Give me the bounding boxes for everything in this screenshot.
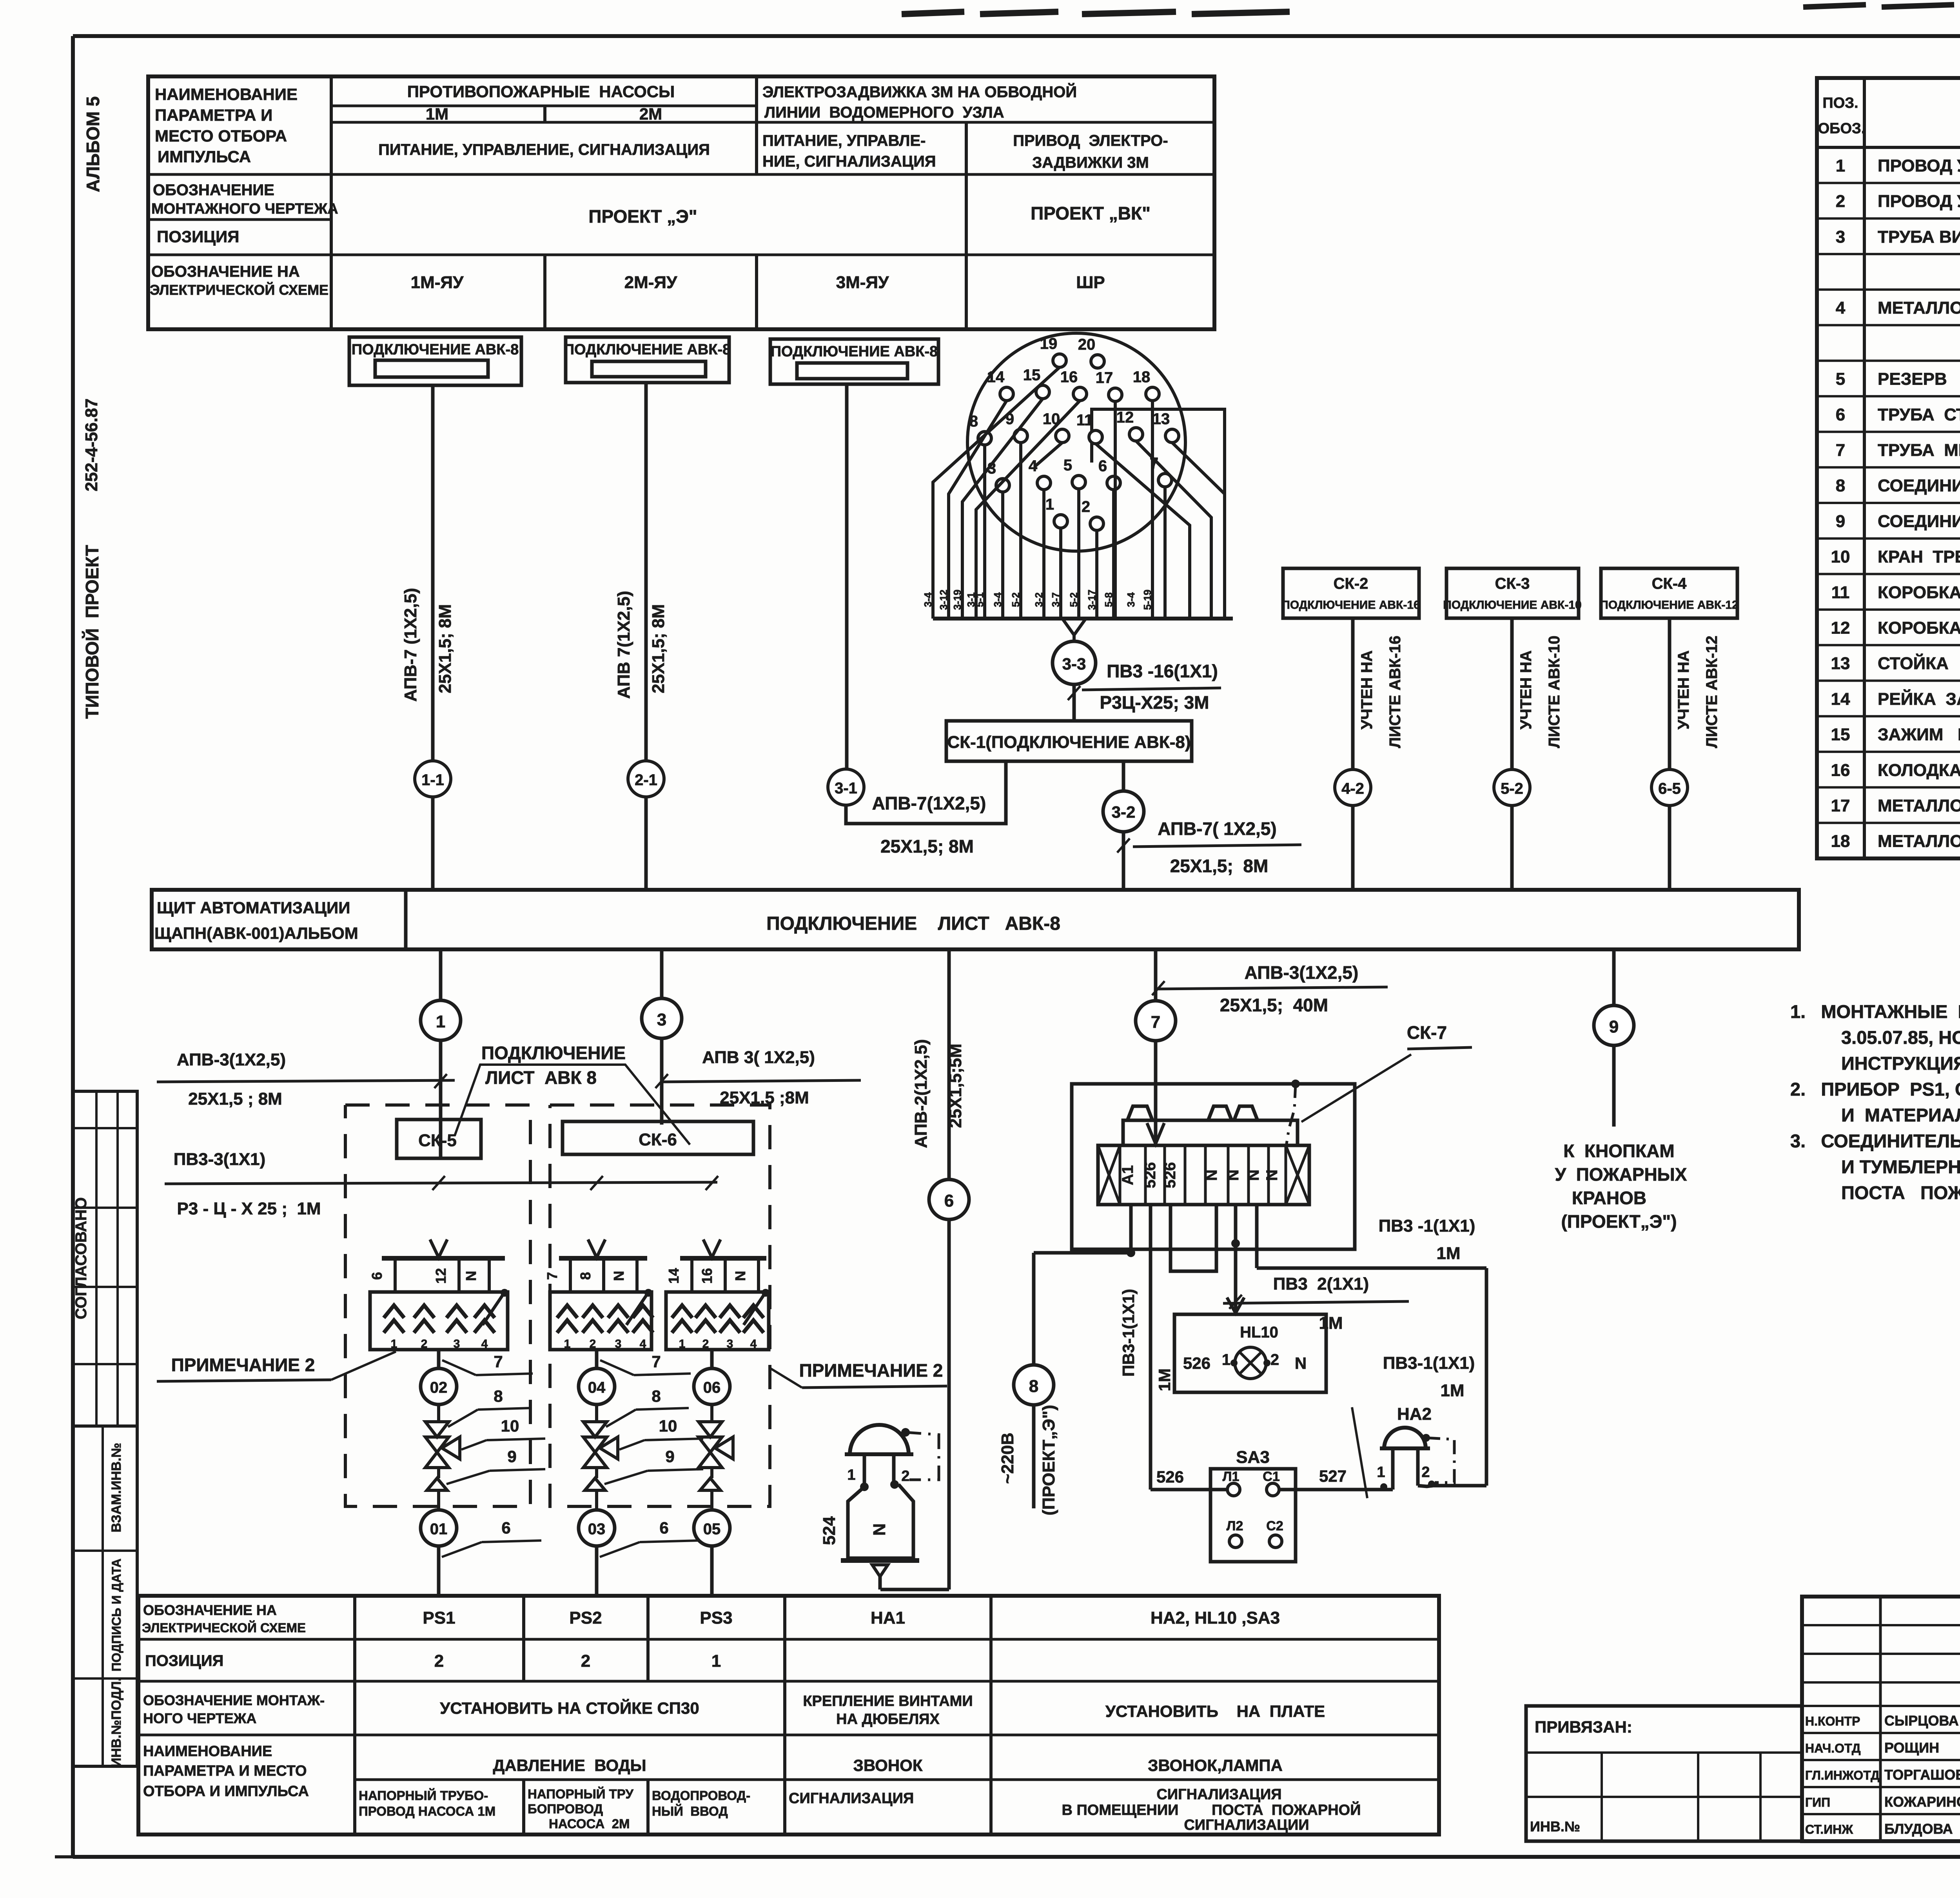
svg-text:PS3: PS3 [700,1608,732,1628]
svg-text:ПВ3-3(1Х1): ПВ3-3(1Х1) [174,1150,266,1169]
wire СК-3 to node 5-2 [1510,618,1514,890]
svg-text:КРАН ТРЕХХОДОВОЙ НАТЯЖНОЙ: КРАН ТРЕХХОДОВОЙ НАТЯЖНОЙ 11Б18БК [1878,546,1960,566]
svg-text:НИЕ, СИГНАЛИЗАЦИЯ: НИЕ, СИГНАЛИЗАЦИЯ [762,153,936,170]
svg-text:ПРИМЕЧАНИЕ 2: ПРИМЕЧАНИЕ 2 [799,1360,943,1381]
svg-text:(ПРОЕКТ„Э"): (ПРОЕКТ„Э") [1561,1211,1677,1232]
label 220V project [998,1405,1058,1515]
scan artifact dashes top [902,5,1954,14]
svg-text:1. МОНТАЖНЫЕ РАБОТЫ ДОЛЖНЫ: 1. МОНТАЖНЫЕ РАБОТЫ ДОЛЖНЫ БЫТЬ ВЫПОЛНЕН… [1790,1001,1960,1022]
svg-text:N: N [1225,1170,1242,1181]
connection box PODKLYUCHENIE AVK-8 #3 [770,339,938,384]
receiver block of PS1 [370,1289,508,1350]
svg-text:МЕТАЛЛОКОНСТРУКЦИИ ДЛЯ КРЕПЛЕ: МЕТАЛЛОКОНСТРУКЦИИ ДЛЯ КРЕПЛЕНИЯ ТРАСС [1878,832,1960,851]
svg-text:1М: 1М [426,105,448,123]
svg-text:1М: 1М [1155,1368,1174,1391]
svg-text:526: 526 [1142,1162,1159,1189]
svg-text:ТРУБА МЕДНАЯ 8Х1 ГОСТ: ТРУБА МЕДНАЯ 8Х1 ГОСТ 617-72* [1878,441,1960,460]
svg-text:3-7: 3-7 [1050,592,1062,607]
svg-text:ПИТАНИЕ, УПРАВЛЕ-: ПИТАНИЕ, УПРАВЛЕ- [762,132,926,149]
svg-text:НАЧ.ОТД: НАЧ.ОТД [1805,1741,1861,1755]
svg-text:ЗВОНОК,ЛАМПА: ЗВОНОК,ЛАМПА [1148,1756,1283,1775]
svg-text:14: 14 [1831,690,1850,709]
svg-text:АЛЬБОМ 5: АЛЬБОМ 5 [83,96,103,192]
svg-text:КОРОБКА СОЕДИНИТЕЛЬНАЯ КСК: КОРОБКА СОЕДИНИТЕЛЬНАЯ КСК-8 [1878,583,1960,602]
cable label APV-3 at node 7 [1152,962,1388,1015]
svg-text:8: 8 [494,1387,503,1405]
svg-text:СОЕДИНИТЕЛЬ СМВ-8-М20: СОЕДИНИТЕЛЬ СМВ-8-М20 [1878,476,1960,495]
svg-text:МОНТАЖНОГО ЧЕРТЕЖА: МОНТАЖНОГО ЧЕРТЕЖА [151,201,338,217]
svg-text:2: 2 [1270,1351,1279,1368]
cable label PV3 2 [1223,1274,1409,1333]
svg-text:КОЖАРИНОВА: КОЖАРИНОВА [1884,1794,1960,1810]
svg-text:ОБОЗНАЧЕНИЕ: ОБОЗНАЧЕНИЕ [153,181,274,199]
svg-text:ПРОЕКТ „ВК": ПРОЕКТ „ВК" [1031,203,1151,223]
svg-text:8: 8 [1029,1377,1038,1396]
svg-text:2. ПРИБОР PS1, СОЕДИНИТЕЛЬН: 2. ПРИБОР PS1, СОЕДИНИТЕЛЬНАЯ КОРОБКА СК… [1790,1079,1960,1100]
wire SK-1 to node 3-2 to bus [1117,761,1130,890]
svg-text:ШР: ШР [1076,273,1105,292]
svg-text:ЩИТ АВТОМАТИЗАЦИИ: ЩИТ АВТОМАТИЗАЦИИ [157,898,350,917]
svg-text:ЗАДВИЖКИ 3М: ЗАДВИЖКИ 3М [1032,154,1149,171]
svg-text:~220В: ~220В [998,1433,1017,1484]
svg-text:ПРИМЕЧАНИЕ 2: ПРИМЕЧАНИЕ 2 [171,1355,315,1375]
svg-text:2: 2 [590,1337,596,1350]
bell HA1 with body 524 [820,1425,919,1590]
svg-text:12: 12 [1116,409,1134,426]
svg-text:9: 9 [1609,1017,1619,1036]
svg-text:СИГНАЛИЗАЦИЯ: СИГНАЛИЗАЦИЯ [1156,1786,1281,1803]
svg-text:АПВ 3( 1Х2,5): АПВ 3( 1Х2,5) [702,1048,815,1067]
svg-text:19: 19 [1040,335,1058,352]
receiver block of PS3 [666,1289,769,1350]
svg-text:ОБОЗНАЧЕНИЕ НА: ОБОЗНАЧЕНИЕ НА [151,263,300,280]
margin label Album 5 [83,96,103,192]
wire bar to node 7 to SK-7 [1154,949,1158,1145]
connection box PODKLYUCHENIE AVK-8 #2 [564,337,731,383]
svg-text:25Х1,5; 8М: 25Х1,5; 8М [1170,856,1269,876]
svg-text:HL10: HL10 [1240,1324,1278,1341]
svg-text:ОТБОРА И ИМПУЛЬСА: ОТБОРА И ИМПУЛЬСА [143,1783,309,1800]
cable label PV3-1 upper [1379,1216,1475,1263]
svg-text:7: 7 [494,1352,503,1371]
svg-text:ПАРАМЕТРА И: ПАРАМЕТРА И [155,106,272,124]
jumper bracket over terminal block [1123,1106,1298,1145]
svg-text:ИНСТРУКЦИЯМИ ПО МОНТАЖУ И: ИНСТРУКЦИЯМИ ПО МОНТАЖУ И ЭКСПЛУАТАЦИИ П… [1841,1053,1960,1074]
wire 7 entry into block [1147,1084,1164,1145]
position number leaders PS2 [600,1352,703,1557]
svg-text:АПВ 7(1Х2,5): АПВ 7(1Х2,5) [614,591,633,699]
node circle 3-2 [1103,791,1144,832]
svg-text:25Х1,5 ; 8М: 25Х1,5 ; 8М [188,1089,282,1109]
svg-text:9: 9 [665,1447,674,1466]
svg-text:10: 10 [659,1417,677,1435]
svg-text:СТОЙКА СП-30: СТОЙКА СП-30 [1878,653,1960,673]
wire СК-2 to node 4-2 [1351,618,1355,890]
svg-text:03: 03 [588,1521,606,1538]
svg-text:25Х1,5; 8М: 25Х1,5; 8М [880,836,974,856]
svg-text:5: 5 [1063,457,1072,474]
valve symbols poz 8/10/9 of PS1 [425,1404,460,1510]
svg-text:3-4: 3-4 [992,592,1004,607]
svg-text:14: 14 [987,368,1005,386]
label primechanie 2 right [770,1360,947,1388]
svg-text:01: 01 [430,1521,448,1538]
text to fire cranes buttons [1555,1141,1687,1232]
svg-text:УЧТЕН НА: УЧТЕН НА [1358,650,1376,729]
svg-text:3: 3 [615,1337,622,1350]
svg-text:РЕЙКА ЗАЖИМОВ Р3-8: РЕЙКА ЗАЖИМОВ Р3-8 [1878,689,1960,709]
position number leaders PS1 [442,1352,545,1557]
svg-text:12: 12 [433,1268,449,1284]
svg-text:4-2: 4-2 [1341,780,1364,797]
label uchten na liste for СК-3 [1517,636,1563,748]
connector shell circle SHR [967,333,1185,551]
svg-text:АПВ-3(1Х2,5): АПВ-3(1Х2,5) [177,1050,286,1069]
svg-text:КОЛОДКА МАРКИРОВОЧНАЯ КМ-4: КОЛОДКА МАРКИРОВОЧНАЯ КМ-4 [1878,760,1960,780]
node circle 2-1 [628,761,664,797]
cable label APV-7 on wire 1 [401,588,455,702]
cable label APV-2 on wire 6 [911,1039,965,1148]
wire and node 04 [579,1350,615,1404]
svg-text:С1: С1 [1263,1469,1279,1484]
svg-text:7: 7 [544,1272,560,1280]
svg-text:17: 17 [1096,369,1113,386]
svg-text:ПРОТИВОПОЖАРНЫЕ НАСОСЫ: ПРОТИВОПОЖАРНЫЕ НАСОСЫ [407,82,675,101]
bottom designation table [138,1596,1439,1834]
svg-text:ПВ3 -16(1Х1): ПВ3 -16(1Х1) [1107,661,1218,681]
svg-text:3-12: 3-12 [938,590,949,610]
node circle 7 [1136,1001,1176,1041]
svg-text:14: 14 [666,1268,682,1284]
svg-text:1: 1 [564,1337,571,1350]
node circle 1-1 [415,761,451,797]
node circle 9 [1594,1005,1634,1045]
svg-text:ГЛ.ИНЖОТД: ГЛ.ИНЖОТД [1805,1768,1880,1782]
cable label APV 3 right of node 3 [655,1048,861,1107]
svg-text:N: N [1203,1170,1220,1181]
svg-text:8: 8 [652,1387,661,1405]
svg-text:НАСОСА 2М: НАСОСА 2М [549,1816,630,1831]
wire SA3 row labels 526 527 [1156,1467,1384,1490]
svg-text:4: 4 [1836,298,1846,318]
svg-text:25Х1,5; 40М: 25Х1,5; 40М [1220,995,1328,1015]
svg-text:ПРОВОД УСТАНОВОЧНЫЙ ПВ3-1-380: ПРОВОД УСТАНОВОЧНЫЙ ПВ3-1-380 ГОСТ 6323-… [1878,155,1960,175]
svg-text:ТОРГАШОВ: ТОРГАШОВ [1884,1767,1960,1783]
svg-text:ТРУБА СТАЛЬНАЯ БЕСШОВНАЯ: ТРУБА СТАЛЬНАЯ БЕСШОВНАЯ 14Х2-10000 [1878,405,1960,424]
svg-text:3. СОЕДИНИТЕЛЬНУЮ КОРОБКУ: 3. СОЕДИНИТЕЛЬНУЮ КОРОБКУ СК-6, ЗВОНОК Н… [1790,1130,1960,1151]
svg-text:1: 1 [1222,1351,1230,1368]
margin block SOGLASOVANO [73,1091,137,1426]
svg-text:ПОДКЛЮЧЕНИЕ АВК-8: ПОДКЛЮЧЕНИЕ АВК-8 [771,343,938,360]
svg-text:2: 2 [901,1468,909,1484]
svg-text:2: 2 [702,1337,709,1350]
wire bar to node 1 [439,949,443,1158]
wire and node 02 [421,1350,457,1404]
cable label PV3-3 [165,1150,718,1218]
label primechanie 2 left [157,1352,396,1381]
margin block signatures [73,1426,137,1767]
svg-text:2М-ЯУ: 2М-ЯУ [624,273,677,292]
svg-text:Н.КОНТР: Н.КОНТР [1805,1714,1860,1728]
svg-text:ПРОЕКТ „Э": ПРОЕКТ „Э" [588,206,697,227]
svg-text:18: 18 [1133,368,1151,386]
svg-text:2: 2 [1836,192,1845,211]
svg-text:РОЩИН: РОЩИН [1884,1740,1939,1756]
svg-text:КРЕПЛЕНИЕ ВИНТАМИ: КРЕПЛЕНИЕ ВИНТАМИ [803,1693,973,1709]
terminal strip of PS1 [369,1239,505,1292]
node circle 3-1 [828,769,864,805]
svg-text:АПВ-2(1Х2,5): АПВ-2(1Х2,5) [911,1039,931,1148]
valve symbols poz 8/10/9 of PS2 [583,1404,618,1510]
svg-text:СК-6: СК-6 [639,1130,677,1149]
svg-text:1: 1 [847,1467,855,1483]
svg-text:252-4-56.87: 252-4-56.87 [82,398,101,491]
svg-text:УСТАНОВИТЬ НА СТОЙКЕ СП30: УСТАНОВИТЬ НА СТОЙКЕ СП30 [440,1698,699,1717]
svg-text:N: N [1263,1170,1281,1181]
svg-text:ЗАЖИМ НАБОРНЫЙ ЗН-Н: ЗАЖИМ НАБОРНЫЙ ЗН-Н [1878,724,1960,744]
wire block right loop to HA2 [1257,1205,1486,1486]
node circle 6 [929,1179,969,1219]
svg-text:11: 11 [1076,412,1093,429]
svg-text:4: 4 [640,1337,646,1350]
svg-text:С2: С2 [1266,1519,1283,1533]
leader line PV3-1 to SA3 wire [1352,1407,1367,1498]
svg-text:МЕСТО ОТБОРА: МЕСТО ОТБОРА [155,127,287,145]
junction box СК-2 [1281,568,1420,618]
svg-text:4: 4 [481,1337,488,1350]
bell HA2 [1377,1404,1435,1490]
svg-text:2: 2 [1421,1464,1430,1481]
connector insert box [1092,409,1225,619]
svg-text:АПВ-3(1Х2,5): АПВ-3(1Х2,5) [1245,962,1359,983]
receiver block of PS2 [550,1289,653,1350]
svg-text:20: 20 [1078,336,1096,353]
svg-text:7: 7 [1151,1013,1160,1032]
svg-text:ПВ3 2(1Х1): ПВ3 2(1Х1) [1273,1274,1369,1294]
svg-text:ПВ3-1(1Х1): ПВ3-1(1Х1) [1383,1354,1475,1373]
svg-text:11: 11 [1831,583,1850,602]
svg-text:1М: 1М [1436,1244,1460,1263]
svg-text:УСТАНОВИТЬ НА ПЛАТЕ: УСТАНОВИТЬ НА ПЛАТЕ [1105,1702,1325,1720]
terminal strip of PS2 [544,1239,647,1292]
svg-text:25Х1,5; 8М: 25Х1,5; 8М [436,604,455,693]
svg-text:НАИМЕНОВАНИЕ: НАИМЕНОВАНИЕ [143,1743,272,1760]
wire from box1 to node 1-1 and bus [431,385,435,890]
svg-text:3: 3 [1836,227,1845,247]
svg-text:6: 6 [1836,405,1845,424]
cable label APV-7 on wire 2 [614,591,668,699]
wire block down to SA3 (526) [1119,1205,1227,1490]
svg-text:АПВ-7( 1Х2,5): АПВ-7( 1Х2,5) [1158,818,1276,839]
svg-text:15: 15 [1831,725,1850,744]
svg-text:ИМПУЛЬСА: ИМПУЛЬСА [158,147,251,166]
svg-text:5-19: 5-19 [1142,590,1153,610]
terminal block in SK-7 [1098,1145,1309,1205]
svg-text:16: 16 [699,1268,715,1284]
label SK-7 with leader [1301,1022,1472,1122]
margin label 252-4-56.87 [82,398,101,491]
svg-text:ЛИСТ АВК 8: ЛИСТ АВК 8 [485,1067,597,1088]
svg-text:А1: А1 [1119,1165,1136,1185]
wire from box3 to node 3-1 [845,384,849,769]
svg-text:ТИПОВОЙ ПРОЕКТ: ТИПОВОЙ ПРОЕКТ [82,545,102,719]
svg-text:КРАНОВ: КРАНОВ [1572,1188,1646,1208]
node 01 [421,1510,457,1596]
svg-text:1-1: 1-1 [421,771,444,789]
svg-text:12: 12 [1831,618,1850,637]
svg-text:Р3 - Ц - Х 25 ; 1М: Р3 - Ц - Х 25 ; 1М [177,1199,321,1218]
svg-text:4: 4 [750,1337,757,1350]
svg-text:526: 526 [1183,1354,1210,1372]
svg-text:1: 1 [1377,1464,1385,1481]
svg-text:SA3: SA3 [1236,1448,1270,1467]
svg-text:НОГО ЧЕРТЕЖА: НОГО ЧЕРТЕЖА [143,1710,256,1726]
svg-text:1: 1 [711,1651,721,1671]
dash-dot shield wire at HA2 [1426,1438,1454,1482]
svg-text:НАПОРНЫЙ ТРУ: НАПОРНЫЙ ТРУ [528,1786,633,1801]
svg-text:1М-ЯУ: 1М-ЯУ [411,273,464,292]
svg-text:Л2: Л2 [1227,1519,1243,1533]
svg-text:2-1: 2-1 [635,771,657,789]
svg-text:У ПОЖАРНЫХ: У ПОЖАРНЫХ [1555,1164,1687,1185]
svg-text:ЛИСТЕ АВК-16: ЛИСТЕ АВК-16 [1387,636,1404,748]
svg-text:2: 2 [1082,498,1090,515]
svg-text:9: 9 [1836,512,1845,531]
svg-text:(ПРОЕКТ„Э"): (ПРОЕКТ„Э") [1039,1405,1058,1515]
svg-text:ВОДОПРОВОД-: ВОДОПРОВОД- [652,1788,750,1803]
svg-text:ПРОВОД НАСОСА 1М: ПРОВОД НАСОСА 1М [359,1804,495,1818]
svg-text:5: 5 [1836,370,1845,389]
svg-text:1: 1 [679,1337,686,1350]
svg-text:ПВ3 -1(1Х1): ПВ3 -1(1Х1) [1379,1216,1475,1236]
connection box PODKLYUCHENIE AVK-8 #1 [349,337,521,385]
svg-text:3: 3 [657,1010,666,1029]
svg-text:ОБОЗНАЧЕНИЕ НА: ОБОЗНАЧЕНИЕ НА [143,1602,277,1618]
svg-text:Л1: Л1 [1223,1469,1240,1484]
svg-text:16: 16 [1060,368,1078,386]
svg-text:ДАВЛЕНИЕ ВОДЫ: ДАВЛЕНИЕ ВОДЫ [493,1756,646,1775]
node circle 5-2 [1494,769,1530,806]
svg-text:ЭЛЕКТРИЧЕСКОЙ СХЕМЕ: ЭЛЕКТРИЧЕСКОЙ СХЕМЕ [142,1620,306,1635]
svg-text:ЩАПН(АВК-001)АЛЬБОМ: ЩАПН(АВК-001)АЛЬБОМ [154,924,358,942]
svg-text:3-1: 3-1 [835,780,857,797]
svg-text:8: 8 [1836,476,1845,495]
svg-text:2: 2 [421,1337,428,1350]
svg-text:ТРУБА ВИНИПЛАСТОВАЯ ТУ 6.19.: ТРУБА ВИНИПЛАСТОВАЯ ТУ 6.19.051.249-79 [1878,227,1960,247]
svg-text:СОЕДИНИТЕЛЬ ИСВ-14Х М20: СОЕДИНИТЕЛЬ ИСВ-14Х М20 [1878,512,1960,531]
junction box SK-7 outline [1072,1084,1355,1249]
svg-text:6: 6 [944,1191,954,1210]
wire block to 220V stub [1034,1205,1135,1257]
svg-text:524: 524 [820,1516,839,1545]
svg-text:5-1: 5-1 [974,592,985,607]
svg-text:СК-4: СК-4 [1652,575,1687,592]
svg-text:СК-5: СК-5 [418,1131,457,1150]
svg-text:3-2: 3-2 [1033,592,1045,607]
svg-text:3-2: 3-2 [1112,803,1136,821]
svg-text:2М: 2М [639,105,662,123]
label uchten na liste for СК-4 [1675,636,1720,748]
svg-text:8: 8 [577,1272,593,1280]
svg-text:6: 6 [501,1519,510,1537]
svg-text:N: N [870,1523,889,1536]
svg-text:ЭЛЕКТРОЗАДВИЖКА 3М НА ОБВОДНОЙ: ЭЛЕКТРОЗАДВИЖКА 3М НА ОБВОДНОЙ [762,83,1077,101]
notes paragraph [1790,1001,1960,1203]
svg-text:15: 15 [1023,367,1041,384]
automation panel bar [152,890,1799,949]
junction box СК-3 [1443,568,1581,618]
svg-text:ПОДКЛЮЧЕНИЕ АВК-8: ПОДКЛЮЧЕНИЕ АВК-8 [564,341,731,358]
junction box SK-1 [946,721,1192,761]
svg-text:526: 526 [1156,1468,1184,1486]
svg-text:2: 2 [581,1651,590,1671]
svg-text:3: 3 [727,1337,733,1350]
title block texts [1805,1619,1960,1837]
wire node 8 power stub [1032,1253,1036,1508]
svg-text:АПВ-7(1Х2,5): АПВ-7(1Х2,5) [872,793,986,813]
label podklyuchenie list AVK 8 with leader [455,1043,690,1145]
svg-text:7: 7 [652,1352,661,1371]
svg-text:ЭЛЕКТРИЧЕСКОЙ СХЕМЕ: ЭЛЕКТРИЧЕСКОЙ СХЕМЕ [150,281,328,298]
connector pins with numbers [969,335,1179,530]
svg-text:16: 16 [1831,760,1850,780]
svg-text:НЫЙ ВВОД: НЫЙ ВВОД [652,1804,728,1818]
svg-text:8: 8 [969,413,978,430]
svg-text:5-2: 5-2 [1068,592,1080,607]
label uchten na liste for СК-2 [1358,636,1404,748]
u-loop under block [1171,1205,1216,1271]
svg-text:СК-2: СК-2 [1334,575,1368,592]
title block grid [1802,1597,1960,1841]
dash-dot shield wire at HA1 [906,1432,939,1480]
svg-text:СЫРЦОВА: СЫРЦОВА [1884,1713,1959,1729]
svg-text:1: 1 [1836,156,1845,175]
parameter table texts [150,82,1168,298]
svg-text:3-4: 3-4 [922,592,934,607]
svg-text:ПОЗИЦИЯ: ПОЗИЦИЯ [145,1652,223,1669]
svg-text:БОПРОВОД: БОПРОВОД [528,1802,603,1816]
svg-text:02: 02 [430,1379,448,1396]
bottom table texts [142,1602,1361,1833]
svg-text:СОГЛАСОВАНО: СОГЛАСОВАНО [73,1197,90,1319]
svg-text:04: 04 [588,1379,606,1396]
svg-text:9: 9 [507,1447,516,1466]
svg-text:ИНВ.№: ИНВ.№ [1530,1818,1580,1834]
svg-text:ПОДКЛЮЧЕНИЕ АВК-12: ПОДКЛЮЧЕНИЕ АВК-12 [1600,599,1738,611]
svg-text:5-2: 5-2 [1501,780,1523,797]
svg-text:1: 1 [436,1012,445,1031]
node circle 4-2 [1335,769,1371,806]
node circle 1 [421,1000,461,1040]
svg-text:3М-ЯУ: 3М-ЯУ [836,273,889,292]
svg-text:СИГНАЛИЗАЦИЯ: СИГНАЛИЗАЦИЯ [789,1790,914,1807]
svg-text:3-17: 3-17 [1086,590,1098,610]
svg-text:И ТУМБЛЕРНЫЙ ВЫКЛЮЧАТЕЛЬ: И ТУМБЛЕРНЫЙ ВЫКЛЮЧАТЕЛЬ SA2 УСТАНОВИТЬ … [1841,1156,1960,1177]
svg-text:3-4: 3-4 [1125,592,1137,607]
svg-text:2: 2 [434,1651,444,1671]
svg-text:ПОДКЛЮЧЕНИЕ АВК-16: ПОДКЛЮЧЕНИЕ АВК-16 [1281,599,1420,611]
svg-text:СК-7: СК-7 [1407,1022,1447,1043]
svg-text:N: N [1245,1170,1262,1181]
node circle 6-5 [1651,769,1688,806]
svg-text:6: 6 [1098,457,1107,475]
svg-text:СК-1(ПОДКЛЮЧЕНИЕ АВК-8): СК-1(ПОДКЛЮЧЕНИЕ АВК-8) [947,733,1191,752]
svg-text:1: 1 [1045,496,1054,513]
svg-text:ПРОВОД УСТАНОВОЧНЫЙ АПВ-2,0-3: ПРОВОД УСТАНОВОЧНЫЙ АПВ-2,0-380 ГОСТ 632… [1878,191,1960,211]
svg-text:И МАТЕРИАЛЫ ПОЗ. 7÷10 УСТА: И МАТЕРИАЛЫ ПОЗ. 7÷10 УСТАНОВИТЬ НА СТОЙ… [1841,1105,1960,1125]
svg-text:ЗВОНОК: ЗВОНОК [853,1756,923,1775]
svg-text:1М: 1М [1440,1381,1464,1400]
